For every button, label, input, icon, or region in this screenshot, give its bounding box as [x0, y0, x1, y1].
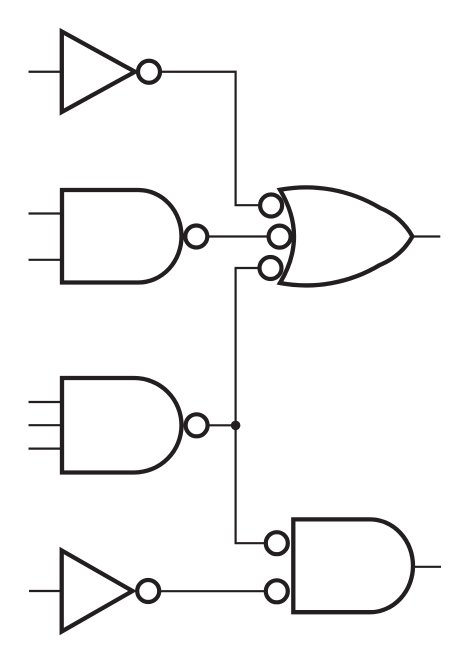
bubble U1 output — [138, 61, 160, 83]
wire input 1 to U3 — [29, 401, 64, 403]
junction dot at node B — [231, 421, 241, 431]
NAND U3 (3-input, body) — [62, 378, 182, 473]
bubble U5 input 2 — [269, 226, 291, 248]
wire U2 output to U5 middle input bubble — [209, 235, 268, 237]
NAND U2 (2-input, body) — [62, 190, 181, 283]
wire input 2 to U2 — [29, 259, 64, 261]
wire input to U1 — [29, 71, 64, 73]
wire input 2 to U3 — [29, 424, 64, 426]
AND gate U6 (with inverted inputs, body) — [293, 519, 413, 612]
wire U6 output — [413, 566, 442, 568]
wire input 1 to U2 — [29, 212, 64, 214]
wire vertical bus from U5 bottom input bubble down to U6 top input bubble — [236, 268, 265, 543]
bubble U6 input 2 — [266, 580, 288, 602]
wire input 3 to U3 — [29, 448, 64, 450]
wire input to U4 — [29, 590, 63, 592]
bubble U5 input 3 — [260, 257, 282, 279]
wire U5 output — [412, 235, 440, 237]
wire U4 output to U6 bottom input bubble — [161, 590, 265, 592]
wire U1 output to node A (right then down then right to U5 top input bubble) — [162, 72, 260, 205]
bubble U2 output — [185, 226, 207, 248]
inverter U1 (triangle body) — [62, 32, 135, 113]
bubble U6 input 1 — [266, 532, 288, 554]
inverter U4 (triangle body) — [62, 551, 133, 632]
bubble U5 input 1 — [260, 195, 282, 217]
bubble U4 output — [137, 580, 159, 602]
wire U3 output to junction — [210, 424, 236, 426]
bubble U3 output — [186, 414, 208, 436]
OR gate U5 (with inverted inputs, body) — [280, 187, 412, 285]
